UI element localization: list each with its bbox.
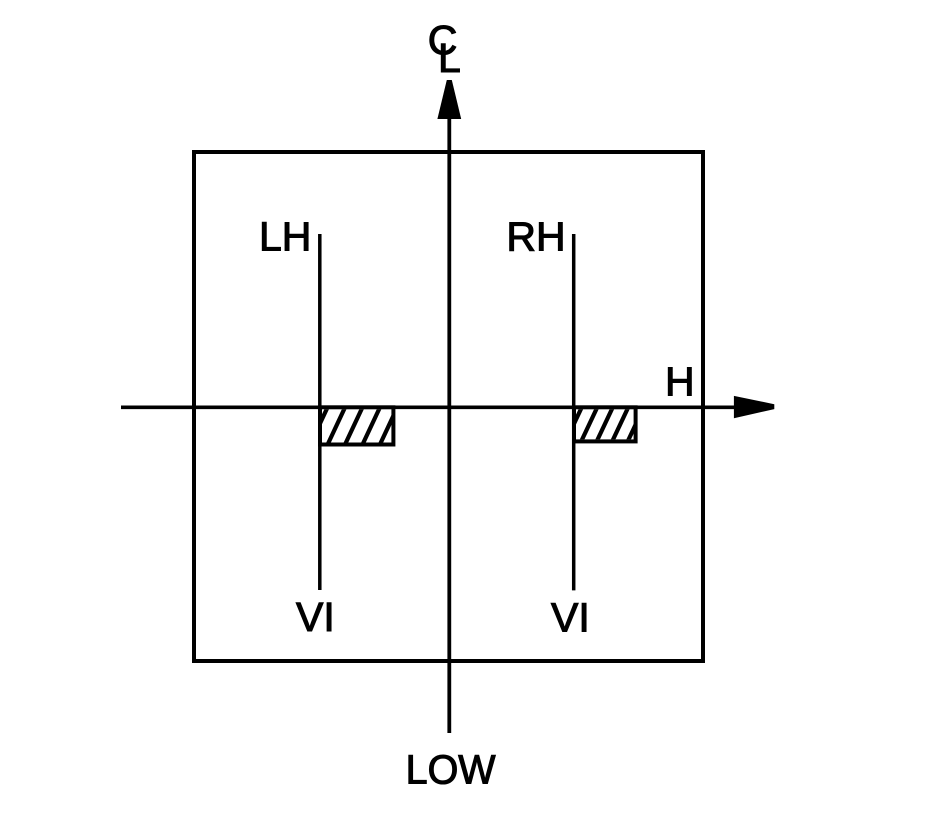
svg-text:L: L — [438, 35, 461, 81]
horizontal axis — [121, 405, 736, 409]
label LH — [259, 213, 311, 259]
label VI left — [296, 594, 335, 640]
svg-text:VI: VI — [296, 594, 335, 640]
right hatch lines — [564, 407, 644, 445]
label H — [665, 358, 695, 404]
vertical centerline axis — [447, 116, 451, 733]
right arrowhead — [734, 396, 774, 418]
label RH — [506, 213, 565, 259]
right hatched region outline — [574, 407, 636, 441]
label LOW — [406, 746, 496, 792]
svg-text:H: H — [665, 358, 695, 404]
centerline symbol CL — [428, 17, 461, 81]
left hatched region outline — [320, 407, 393, 444]
up arrowhead — [437, 80, 461, 119]
svg-text:LOW: LOW — [406, 746, 496, 792]
svg-text:LH: LH — [259, 213, 311, 259]
svg-text:RH: RH — [506, 213, 565, 259]
LH vertical line — [318, 234, 322, 590]
RH vertical line — [572, 234, 576, 590]
label VI right — [551, 595, 590, 641]
left hatch lines — [309, 407, 415, 448]
square frame — [194, 152, 703, 661]
svg-text:VI: VI — [551, 595, 590, 641]
